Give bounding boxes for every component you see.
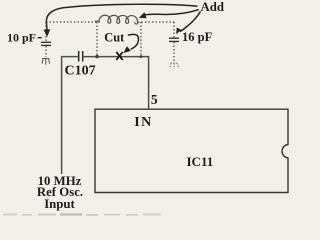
svg-text:IC11: IC11 (187, 154, 214, 169)
arrow Add -> 16 pF (180, 12, 201, 32)
svg-text:C107: C107 (65, 63, 96, 78)
wire: added dotted horizontal net (right of coil) (138, 21, 174, 23)
inductor L (added coil) (95, 15, 138, 24)
capacitor 16 pF (added) (173, 22, 175, 37)
arrow Add -> coil (144, 10, 199, 16)
capacitor 10 pF (added) (45, 22, 47, 41)
junction at coil left tap (95, 55, 98, 58)
wire: dotted vertical right coil tap (140, 22, 142, 57)
wire: added dotted horizontal net (left of coil) (46, 21, 100, 23)
arrow Cut -> X (128, 34, 139, 49)
caption remnant at bottom edge (3, 213, 161, 215)
capacitor C107 (79, 51, 83, 62)
svg-text:16 pF: 16 pF (182, 30, 213, 44)
node label: 10 MHz Ref Osc. Input (37, 174, 83, 211)
wire: main horizontal to corner and down to pin 5 (84, 57, 149, 109)
svg-text:5: 5 (151, 92, 158, 107)
svg-text:Cut: Cut (104, 31, 125, 45)
svg-text:Add: Add (201, 0, 224, 14)
IC U1 box IC11 (95, 109, 288, 192)
svg-text:10 pF: 10 pF (7, 30, 36, 44)
ground (below 16 pF, dotted) (170, 63, 179, 69)
ground (below 10 pF) (42, 59, 50, 65)
wire: dotted vertical left coil tap (96, 22, 98, 57)
svg-text:Input: Input (44, 197, 75, 211)
junction at coil right tap (140, 55, 143, 58)
svg-text:IN: IN (134, 115, 153, 130)
wire: input vertical line (62, 57, 78, 174)
arrow Add -> 10 pF (long arc) (46, 4, 197, 31)
cut mark X (116, 52, 122, 60)
